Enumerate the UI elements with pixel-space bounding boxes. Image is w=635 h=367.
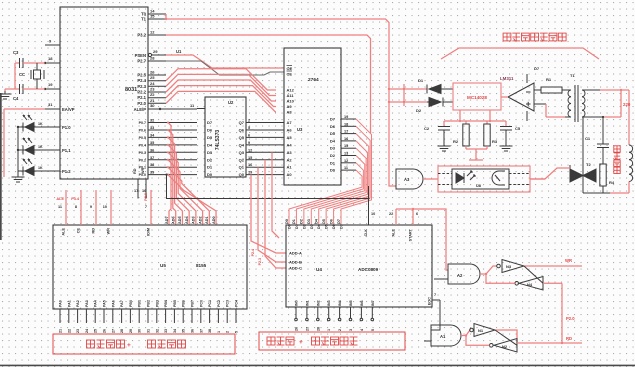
wire N1 to N2 cross (495, 330, 517, 345)
svg-text:CLK: CLK (364, 229, 368, 237)
net label P3.4 (71, 197, 80, 201)
svg-text:P3.4: P3.4 (71, 197, 80, 201)
svg-text:D3: D3 (330, 146, 336, 151)
svg-text:P2.1: P2.1 (137, 95, 146, 100)
svg-text:IO/M: IO/M (147, 228, 151, 236)
svg-text:37: 37 (199, 329, 203, 333)
svg-text:D6: D6 (207, 127, 213, 132)
pin Q1 latch pin16 (239, 163, 254, 170)
ground C5 (500, 143, 513, 151)
pin RST pin9 (45, 39, 60, 46)
svg-text:1: 1 (327, 329, 331, 331)
svg-text:PA2: PA2 (76, 300, 80, 307)
svg-text:25: 25 (150, 75, 155, 80)
svg-text:D2: D2 (207, 157, 213, 162)
pin D5 adc label (325, 224, 329, 229)
label D7 (534, 66, 540, 71)
pin D0 eprom pin11 (330, 166, 356, 173)
pin A3 eprom (287, 150, 293, 155)
pin A12 eprom (287, 88, 295, 93)
pin A10 eprom (287, 99, 295, 104)
pin D7 adc label (340, 224, 344, 229)
net label D3 adc (307, 219, 311, 224)
net label P2.0 rotated (144, 193, 148, 201)
svg-text:35: 35 (182, 329, 186, 333)
svg-text:30: 30 (150, 103, 155, 108)
svg-text:P0.6: P0.6 (139, 128, 146, 132)
svg-text:2: 2 (248, 119, 250, 123)
svg-text:4: 4 (360, 329, 364, 331)
pin P0.7 pin32 (139, 119, 197, 126)
svg-text:24: 24 (150, 81, 155, 86)
bus wire P0.3 to AD3 (167, 151, 196, 225)
pin PC3 8155 (226, 300, 230, 333)
svg-text:PA5: PA5 (103, 300, 107, 307)
wire comparator minus input (534, 89, 541, 91)
wire N2 feedback (466, 336, 490, 346)
svg-text:CE: CE (287, 72, 293, 77)
pin A5 eprom (287, 135, 293, 140)
pin START adc pin6 (409, 209, 419, 241)
inverter N4 (515, 277, 543, 291)
svg-text:1: 1 (217, 331, 221, 333)
wire P2.2 to A10 (166, 80, 276, 101)
svg-text:PA1: PA1 (67, 300, 71, 307)
wire N3 output WR (524, 265, 582, 267)
net label AD3 (192, 216, 196, 224)
net label ALE 8155 (56, 197, 64, 201)
pin PC0 8155 (199, 300, 203, 333)
svg-text:25: 25 (94, 329, 98, 333)
pin PB7 8155 (191, 300, 195, 333)
svg-text:P1.0: P1.0 (62, 125, 71, 130)
svg-text:RD: RD (92, 228, 96, 234)
svg-text:31: 31 (48, 102, 53, 107)
net label D4 adc (315, 218, 319, 224)
svg-text:6: 6 (248, 133, 250, 137)
bus wire D4 eprom to ADC (319, 141, 368, 225)
svg-text:PA3: PA3 (85, 300, 89, 307)
svg-text:Q3: Q3 (239, 150, 245, 155)
svg-text:5: 5 (371, 329, 375, 331)
svg-text:39: 39 (150, 171, 154, 175)
pin D0 adc label (288, 224, 292, 229)
pin P1.2 (18, 169, 71, 174)
svg-text:29: 29 (153, 49, 158, 54)
svg-text:AD3: AD3 (192, 216, 196, 224)
svg-text:A12: A12 (287, 88, 295, 93)
pin PB2 8155 (147, 300, 151, 333)
pin WR pin16 (141, 167, 146, 198)
pin P0.4 pin35 (139, 141, 197, 148)
pin CE eprom (287, 71, 293, 77)
svg-text:WR: WR (107, 228, 111, 235)
svg-text:D2: D2 (302, 224, 306, 229)
svg-text:A3: A3 (287, 150, 293, 155)
led D4 (23, 138, 43, 155)
pin IN5 adc (349, 300, 353, 331)
svg-text:P2.3: P2.3 (258, 258, 262, 265)
wire comparator plus input (534, 104, 565, 117)
svg-text:D4: D4 (330, 138, 336, 143)
pin D6 eprom pin18 (330, 122, 356, 129)
bus wire D0 eprom to ADC (289, 170, 362, 225)
svg-text:ALE: ALE (62, 228, 66, 236)
svg-text:D6: D6 (332, 224, 336, 229)
text thermocouple transmitter (267, 337, 358, 346)
pin PC2 8155 (217, 300, 221, 333)
svg-text:32: 32 (155, 329, 159, 333)
pin D5 latch (207, 135, 213, 140)
svg-text:T1: T1 (570, 73, 575, 78)
svg-text:U1: U1 (176, 49, 182, 54)
svg-text:PC4: PC4 (235, 300, 239, 307)
wire Q0 to A0 (254, 174, 284, 176)
inverter N3 (497, 260, 524, 273)
wire P3.2 vertical (166, 35, 371, 133)
svg-text:ALE: ALE (392, 229, 396, 237)
svg-text:IN7: IN7 (371, 300, 375, 306)
net label AD5 (178, 216, 182, 224)
wire A1 input stub (424, 340, 431, 342)
pin PA2 8155 (76, 300, 80, 333)
pin PSEN pin29 (135, 49, 166, 58)
bus wire D7 eprom to ADC (341, 119, 371, 225)
wire P2.3 to A11 (166, 74, 276, 95)
svg-text:D5: D5 (322, 219, 326, 224)
svg-text:D0: D0 (285, 219, 289, 224)
resistor R4 (600, 164, 615, 193)
pin ALE 8155 pin11 (58, 190, 66, 236)
svg-text:ALE: ALE (56, 197, 64, 201)
pin PA4 8155 (94, 300, 98, 333)
pin P0.1 pin38 (139, 163, 197, 170)
wire led cathode rail (17, 127, 19, 172)
pin Q3 latch pin12 (239, 148, 254, 155)
led D5 (23, 159, 43, 176)
svg-text:P2.4: P2.4 (251, 249, 255, 256)
bus wire D5 eprom to ADC (326, 134, 369, 225)
net label AD7 (165, 216, 169, 224)
pin A9 eprom (287, 104, 293, 109)
svg-text:18: 18 (344, 122, 348, 126)
diode D1 (418, 78, 453, 94)
and gate A3 (396, 169, 423, 189)
crystal Y1 (19, 63, 44, 89)
wire Q3 to A3 (254, 151, 284, 153)
svg-text:Q7: Q7 (239, 120, 245, 125)
pin EA/VP pin31 (45, 102, 75, 112)
svg-text:P0.4: P0.4 (139, 143, 146, 147)
capacitor C4 (13, 84, 45, 101)
pin P2.1 pin22 (137, 92, 166, 100)
svg-text:P2.2: P2.2 (137, 90, 146, 95)
svg-text:P2.3: P2.3 (137, 84, 146, 89)
net label 220 (623, 102, 631, 107)
bus wire P0.1 to AD1 (167, 166, 209, 225)
pin Q4 latch pin9 (239, 141, 254, 148)
svg-text:AD1: AD1 (205, 216, 209, 224)
wire T0 join (165, 14, 167, 20)
svg-text:220: 220 (623, 102, 631, 107)
pin D6 adc label (332, 224, 336, 229)
svg-text:R1: R1 (546, 77, 552, 82)
svg-text:P2.0: P2.0 (144, 193, 148, 201)
svg-text:IN4: IN4 (338, 300, 342, 306)
svg-text:LM311: LM311 (500, 76, 514, 81)
svg-text:ADC0809: ADC0809 (358, 267, 379, 272)
svg-text:13: 13 (344, 152, 348, 156)
triac T2 (570, 117, 596, 193)
comparator U7 LM311 (500, 74, 534, 121)
pin D6 latch (207, 127, 213, 132)
svg-text:15: 15 (248, 156, 252, 160)
svg-text:PB1: PB1 (138, 300, 142, 307)
svg-text:PB7: PB7 (191, 300, 195, 307)
svg-text:11: 11 (344, 166, 348, 170)
ground crystal (0, 89, 15, 99)
net label D5 adc (322, 219, 326, 224)
net label AD2 (198, 216, 202, 224)
svg-text:C3: C3 (13, 50, 19, 55)
svg-text:2764: 2764 (308, 77, 319, 83)
svg-text:12: 12 (150, 30, 155, 35)
svg-text:R2: R2 (453, 139, 459, 144)
pin P1.1 (17, 148, 71, 153)
wire A2 output (480, 266, 497, 275)
wire ADD-C address line (265, 160, 286, 268)
svg-text:D0: D0 (330, 168, 336, 173)
bus wire D2 eprom to ADC (304, 156, 365, 226)
pin P2.5 pin26 (137, 70, 166, 78)
pin PA7 8155 (120, 300, 124, 333)
wire Q7 to A7 (254, 122, 284, 124)
svg-text:PA0: PA0 (59, 300, 63, 307)
svg-text:D7: D7 (330, 117, 336, 122)
svg-text:D7: D7 (207, 120, 213, 125)
and gate A1 (431, 325, 461, 346)
svg-text:MC14028: MC14028 (467, 95, 487, 100)
capacitor C2 (424, 121, 450, 143)
svg-text:IN1: IN1 (305, 300, 309, 306)
svg-text:D0: D0 (288, 224, 292, 229)
pin PC4 8155 (235, 300, 239, 333)
svg-text:PSEN: PSEN (135, 53, 146, 58)
svg-text:D2: D2 (416, 108, 422, 113)
pin Q0 latch pin19 (239, 171, 254, 178)
pin PB4 8155 (164, 300, 168, 333)
svg-text:Q5: Q5 (239, 135, 245, 140)
pin RD pin17 (133, 168, 138, 198)
wire branch to diode D1 (388, 88, 404, 90)
pin CE 8155 pin8 (75, 190, 81, 233)
svg-text:22: 22 (67, 329, 71, 333)
svg-text:37: 37 (150, 156, 154, 160)
capacitor C3 (13, 50, 45, 68)
pin P2.4 pin25 (137, 75, 166, 83)
svg-text:A11: A11 (287, 93, 295, 98)
svg-text:D5: D5 (207, 135, 213, 140)
pin XTAL1 pin19 (44, 82, 60, 90)
svg-text:P2.5: P2.5 (137, 73, 146, 78)
net label D0 adc (285, 219, 289, 224)
svg-text:D7: D7 (534, 66, 540, 71)
pin RD 8155 pin9 (90, 190, 96, 233)
svg-text:AD4: AD4 (185, 216, 189, 224)
label box thermocouple (259, 332, 405, 350)
svg-text:IN6: IN6 (360, 300, 364, 306)
svg-text:A10: A10 (287, 99, 295, 104)
svg-text:A2: A2 (287, 157, 293, 162)
io chip U5 8155 body (53, 225, 247, 309)
svg-text:C1: C1 (585, 136, 591, 141)
svg-text:D3: D3 (310, 224, 314, 229)
wire clock to ADC (367, 186, 369, 225)
svg-text:21: 21 (59, 329, 63, 333)
svg-text:2: 2 (226, 331, 230, 333)
svg-text:5: 5 (235, 331, 239, 333)
wire T1 to gate A3 (166, 19, 396, 186)
pin D7 latch (207, 120, 213, 125)
wire secondary bottom rail (588, 116, 603, 118)
svg-text:ALE/P: ALE/P (134, 107, 147, 112)
pin OE eprom (287, 66, 293, 72)
svg-text:2: 2 (338, 329, 342, 331)
svg-text:18: 18 (48, 56, 53, 61)
svg-text:AD0: AD0 (212, 216, 216, 224)
pin PB3 8155 (155, 300, 159, 333)
svg-text:PB4: PB4 (164, 300, 168, 307)
svg-text:30: 30 (138, 329, 142, 333)
pin PA0 8155 (59, 300, 63, 333)
svg-text:P0.3: P0.3 (139, 151, 146, 155)
pin EOC adc pin7 (428, 293, 441, 305)
wire snubber top (602, 116, 604, 144)
pin P0.2 pin37 (139, 156, 197, 163)
wire P2.0 to A8 (166, 91, 276, 112)
net label AD1 (205, 216, 209, 224)
pin P2.2 pin23 (137, 87, 166, 95)
optocoupler U8 MOC3041 (438, 166, 530, 192)
pin IN7 adc (371, 300, 375, 331)
svg-text:3: 3 (349, 329, 353, 331)
svg-text:P2.0: P2.0 (566, 316, 575, 321)
pin ADD-A adc (289, 251, 302, 256)
svg-text:12: 12 (344, 159, 348, 163)
wire ADD-A address line (251, 175, 286, 253)
wire PSEN to OE (166, 55, 284, 68)
pin Q2 latch pin15 (239, 156, 254, 163)
svg-text:A3: A3 (404, 177, 410, 182)
svg-text:D4: D4 (207, 142, 213, 147)
svg-text:A4: A4 (287, 142, 293, 147)
pin IN4 adc (338, 300, 342, 331)
net label D7 adc (337, 219, 341, 224)
svg-text:D5: D5 (330, 131, 336, 136)
svg-text:WR: WR (141, 167, 145, 174)
wire N3 to N4 cross (524, 266, 543, 283)
svg-text:11: 11 (58, 205, 62, 209)
pin D1 adc label (295, 224, 299, 229)
svg-text:16: 16 (142, 189, 146, 193)
svg-text:D2: D2 (330, 153, 336, 158)
svg-text:27: 27 (305, 327, 309, 331)
wire EOC to gate A1 (431, 300, 440, 330)
svg-text:D1: D1 (330, 160, 336, 165)
svg-text:CC: CC (19, 72, 25, 77)
pin A8 eprom (287, 110, 293, 115)
pin D4 latch (207, 142, 213, 147)
svg-text:CE: CE (77, 228, 81, 234)
pin T0 pin14 (141, 9, 166, 17)
svg-text:35: 35 (150, 141, 154, 145)
svg-text:EOC: EOC (428, 297, 432, 305)
svg-text:29: 29 (129, 329, 133, 333)
svg-text:38: 38 (208, 329, 212, 333)
wire Q4 to A4 (254, 144, 284, 146)
svg-text:22: 22 (150, 92, 155, 97)
pin D5 eprom pin17 (330, 130, 356, 137)
pin PA6 8155 (111, 300, 115, 333)
pin D2 adc label (302, 224, 306, 229)
wire load top (628, 90, 630, 145)
svg-text:IN2: IN2 (316, 300, 320, 306)
svg-text:D6: D6 (329, 219, 333, 224)
adc U4 ADC0809 body (286, 225, 432, 307)
svg-text:6: 6 (416, 212, 418, 216)
wire diode loop (403, 84, 427, 106)
pin P0.3 pin36 (139, 148, 197, 155)
inverter N2 (490, 339, 518, 353)
svg-text:P2.4: P2.4 (137, 78, 146, 83)
title zero crossing generator (503, 33, 566, 41)
pin D3 eprom pin15 (330, 144, 356, 151)
pin PB5 8155 (173, 300, 177, 333)
pin WR 8155 pin10 (103, 190, 111, 234)
svg-text:A0: A0 (287, 172, 293, 177)
svg-text:P2.7: P2.7 (137, 59, 146, 64)
capacitor C1 (585, 136, 609, 164)
pin Q6 latch pin5 (239, 126, 254, 133)
wire Q2 to A2 (254, 159, 284, 161)
svg-text:8: 8 (75, 205, 77, 209)
pin D1 eprom pin12 (330, 159, 356, 166)
pin ADD-B adc (289, 260, 302, 265)
mcu U1 8031 body (60, 7, 182, 179)
svg-text:PB2: PB2 (147, 300, 151, 307)
svg-text:AD7: AD7 (165, 216, 169, 224)
svg-text:A7: A7 (287, 120, 293, 125)
svg-text:A2: A2 (457, 273, 463, 278)
bus wire P0.7 to AD7 (167, 121, 171, 225)
svg-text:D6: D6 (330, 124, 336, 129)
pin PB0 8155 (129, 300, 133, 333)
svg-text:IN5: IN5 (349, 300, 353, 306)
led D3 (23, 115, 43, 132)
svg-text:D3: D3 (207, 150, 213, 155)
svg-text:A8: A8 (287, 110, 293, 115)
pin P2.7 pin28 (137, 56, 166, 64)
sheet border bottom edge (0, 364, 635, 366)
svg-text:38: 38 (150, 163, 154, 167)
svg-text:AD2: AD2 (198, 216, 202, 224)
net label P2.3 (258, 258, 262, 265)
pin D1 latch (207, 165, 213, 170)
svg-text:P3.2: P3.2 (137, 33, 146, 38)
svg-text:PB3: PB3 (155, 300, 159, 307)
wire A1 output (461, 330, 470, 337)
pin Q5 latch pin6 (239, 133, 254, 140)
